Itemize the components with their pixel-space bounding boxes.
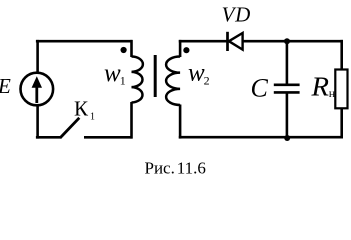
svg-text:C: C (251, 73, 269, 102)
wire: right loop top, w2 to diode (179, 40, 227, 43)
svg-text:w: w (104, 60, 121, 87)
winding w2 (secondary, 3 bumps to the left) (166, 57, 180, 106)
diode VD triangle (229, 33, 243, 50)
wire: right loop top, diode to top-right corner (243, 40, 343, 43)
wire: capacitor branch lower (286, 94, 289, 138)
svg-text:1: 1 (90, 111, 95, 122)
polarity dot w2 (183, 47, 189, 53)
wire: left loop left vertical above source E (36, 40, 39, 74)
switch K1 blade (60, 118, 79, 138)
wire: right loop bottom horizontal (179, 136, 343, 139)
source E circle (21, 73, 54, 106)
svg-text:К: К (74, 97, 89, 121)
wire: w2 vertical upper stub (179, 40, 182, 57)
svg-text:1: 1 (120, 74, 126, 88)
wire: w1 vertical lower stub (130, 102, 133, 139)
source E arrow (32, 76, 42, 103)
svg-text:2: 2 (204, 74, 210, 88)
wire: left loop left vertical below source E (36, 105, 39, 139)
svg-text:VD: VD (222, 3, 251, 27)
capacitor C bottom plate (274, 91, 300, 94)
resistor Rn box (335, 70, 347, 109)
junction node bottom (284, 135, 290, 141)
polarity dot w1 (121, 47, 127, 53)
transformer core line (154, 55, 157, 97)
svg-text:н: н (329, 86, 336, 100)
svg-text:E: E (0, 74, 11, 98)
svg-text:R: R (310, 72, 329, 102)
wire: w2 vertical lower stub (179, 105, 182, 139)
svg-text:w: w (188, 60, 205, 87)
wire: w1 vertical upper stub (130, 40, 133, 57)
wire: left loop bottom, left segment to switch (36, 136, 61, 139)
diode VD cathode bar (226, 32, 229, 51)
wire: right loop right vertical below resistor (340, 108, 343, 139)
capacitor C top plate (274, 84, 300, 87)
wire: capacitor branch upper (286, 41, 289, 84)
wire: left loop top horizontal (36, 40, 132, 43)
wire: left loop bottom, right segment from switch (84, 136, 132, 139)
winding w1 (primary, 3 bumps to the right) (132, 57, 143, 103)
junction node top (capacitor tap) (284, 38, 290, 44)
wire: right loop right vertical above resistor (340, 40, 343, 70)
